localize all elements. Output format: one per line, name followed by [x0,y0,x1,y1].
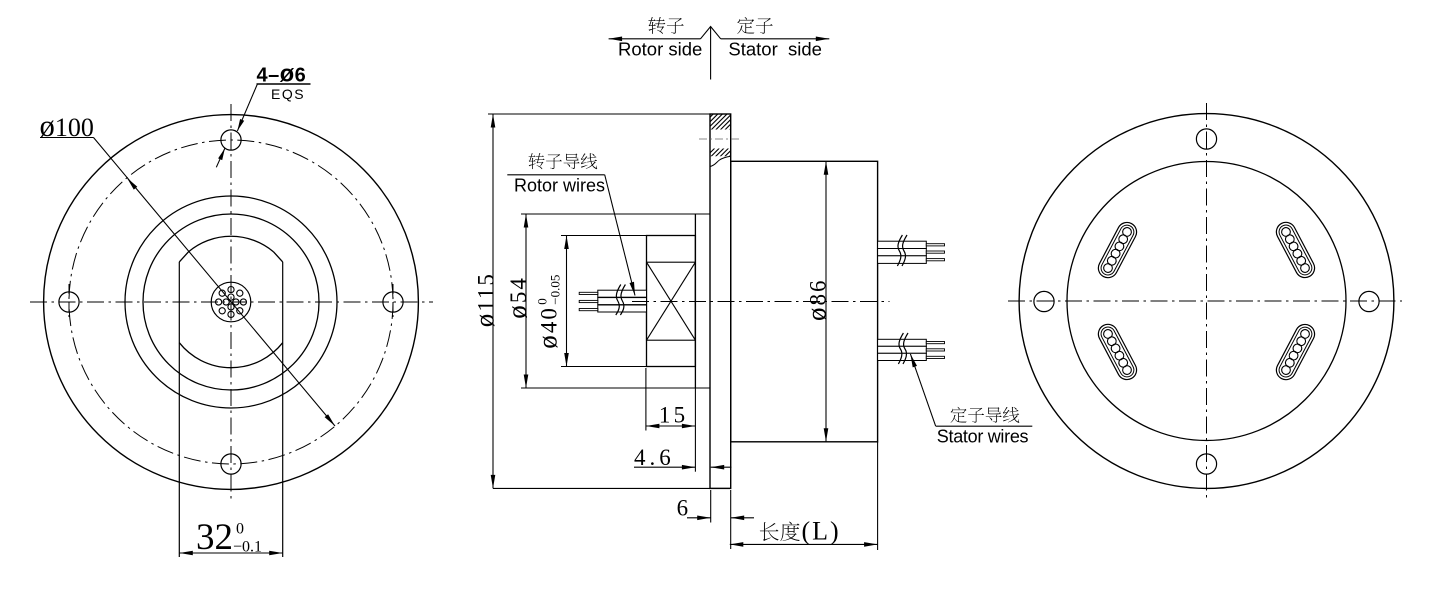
rotor/stator divider peak [701,27,721,39]
right view mounting hole right [1359,291,1379,311]
flange hatch band top [696,113,765,131]
right view mounting hole bottom [1196,454,1216,474]
connector NE [1273,219,1318,281]
dimension 4.6 line left [634,466,695,468]
label 转子 [648,17,665,34]
dimension ∅86 arrow top [824,161,829,175]
dimension ∅115 text [470,272,500,327]
left view hole left vertical tick [68,284,70,320]
left view flange outer circle ∅115 [44,115,419,490]
dimension 4.6 line right [711,466,732,468]
left view slot chamfer right [273,252,282,262]
dimension ∅54 text [502,276,532,319]
svg-text:ø54: ø54 [502,276,532,319]
svg-text:ø115: ø115 [470,272,500,327]
dimension 4-∅6 lower tail [216,148,225,167]
dimension 6 ext left [710,490,712,523]
dimension ∅40 ext bottom [561,366,647,368]
left view wire circles (12) [240,299,246,305]
right view mounting hole left [1034,291,1054,311]
dimension 长度(L) arrow left [730,542,744,547]
dimension 15 arrow right [682,424,696,429]
stator wires leader [910,354,935,426]
dimension ∅40 arrow top [564,236,569,250]
right view body circle ∅86 [1067,162,1346,441]
svg-text:−0.05: −0.05 [548,275,563,305]
left view vertical centerline [230,104,232,500]
rotor X-box diagonal 1 [647,262,696,340]
right view mounting hole top [1196,129,1216,149]
stator wire pins lower [926,342,944,344]
left view mounting hole right [383,292,403,312]
dimension 6 ext right [730,490,732,549]
svg-text:ø86: ø86 [802,278,832,321]
middle view horizontal centerline [632,301,890,303]
rotor wires leader arrow [630,282,636,296]
rotor X-box diagonal 2 [647,262,696,340]
left view boss arc bottom ∅40 [179,343,282,368]
rotor disc left edge ∅54 [694,214,696,388]
dimension ∅40 line [566,236,568,367]
dimension 6 arrow left [697,516,711,521]
svg-text:0: 0 [236,521,244,538]
right view horizontal centerline [1008,300,1402,302]
label 转子导线 [529,153,545,169]
svg-text:ø40: ø40 [533,306,563,349]
dimension ∅115 ext bottom [493,487,731,489]
svg-text:Rotor wires: Rotor wires [514,176,605,196]
dimension 长度(L) line [730,543,878,545]
svg-text:4.6: 4.6 [634,445,675,470]
left view mounting hole top [221,130,241,150]
dimension 4-∅6 underline [257,83,311,85]
rotor/stator divider left line [609,38,701,40]
rotor/stator divider vertical line [710,27,712,80]
stator cable break marks upper [897,235,902,266]
dimension ∅54 arrow top [524,214,529,228]
svg-text:Rotor side: Rotor side [618,39,702,60]
stator cable break marks lower [898,333,903,364]
rotor wires leader [605,175,635,296]
dimension ∅86 line [825,161,827,442]
svg-text:15: 15 [659,402,688,427]
connector NW [1095,219,1140,281]
flange partial-section break line [710,156,731,166]
dimension 长度(L) ext right [877,442,879,550]
right view vertical centerline [1206,103,1208,500]
left view boss arc top ∅40 [189,236,274,251]
left view wire-bundle boundary circle [211,282,251,322]
rotor cable bands [598,290,647,297]
connector SE [1273,321,1318,383]
dimension ∅100 diagonal line [94,138,336,427]
dimension 6 line left [687,517,711,519]
dimension ∅115 arrow bottom [491,475,496,489]
rotor/stator divider right line [721,38,830,40]
rotor disc top edge + ∅54 ext [521,213,710,215]
left view mounting hole left [59,292,79,312]
connector SW [1095,321,1140,383]
stator side arrow [816,37,830,42]
dimension 15 arrow left [646,424,660,429]
dimension ∅100 arrow NW [127,178,137,190]
dimension ∅40 arrow bottom [564,353,569,367]
dimension 15 line [646,425,696,427]
svg-text:Stator side: Stator side [728,39,822,60]
dimension 15 ext left [645,368,647,431]
dimension ∅115 ext top [488,113,710,115]
dimension 32 arrow right [269,551,283,556]
dimension 4-∅6 leader [237,84,257,131]
dimension 长度 text [760,522,779,541]
dimension ∅115 arrow top [491,114,496,128]
rotor X-box rect [647,262,696,340]
stator cable bands upper [878,241,927,248]
dimension ∅86 arrow bottom [824,428,829,442]
rotor disc bottom edge + ∅54 ext [521,387,710,389]
left view bolt circle ∅100 (dash-dot) [69,140,393,464]
svg-text:32: 32 [196,517,233,558]
dimension 32 line [179,552,282,554]
left view rotor disc circle ∅54 [143,214,319,390]
label 定子导线 underline [936,425,1033,427]
right view flange outer circle [1019,114,1394,489]
dimension 长度(L) arrow right [864,542,878,547]
dimension 4-∅6 arrow lower [218,148,225,160]
rotor cable break marks [616,285,621,316]
stator wires leader arrow [910,354,917,368]
left view hole right vertical tick [392,284,394,320]
dimension 4.6 ext [694,388,696,472]
stator cable bands lower [878,339,927,346]
left view slot edge left [178,262,180,557]
rotor boss rect ∅40 [647,236,696,367]
dimension 4-∅6 arrow upper [237,119,244,131]
label 定子 [737,17,754,34]
svg-text:Stator wires: Stator wires [937,427,1029,447]
dimension ∅100 arrow SE [325,414,335,426]
svg-text:EQS: EQS [271,86,305,102]
dimension ∅54 line [525,214,527,388]
svg-text:(L): (L) [802,517,841,546]
rotor side arrow [609,37,623,42]
stator body rect [731,161,878,442]
dimension 6 arrow right [731,516,745,521]
svg-text:−0.1: −0.1 [233,539,262,556]
dimension 32 arrow left [179,551,193,556]
dimension ∅40 text with tolerance [533,275,563,349]
dimension ∅100 leader underline [40,137,94,139]
left view slot chamfer left [179,252,188,262]
dimension 4.6 arrow left [682,465,696,470]
dimension ∅54 arrow bottom [524,375,529,389]
dimension ∅40 ext top [561,235,647,237]
left view mounting hole bottom [221,454,241,474]
dimension 6 line right [731,517,754,519]
flange hatch band lower [696,140,765,158]
label 转子导线 underline [507,174,604,176]
label 定子导线 [950,407,966,423]
left view horizontal centerline [30,301,433,303]
flange section rect [710,114,731,488]
stator wire pins upper [926,244,944,246]
rotor wire pins [579,292,598,294]
dimension ∅86 text [802,278,832,321]
dimension ∅115 line [492,114,494,488]
dimension 4.6 arrow right [711,465,725,470]
left view slot edge right [282,262,284,557]
flange bolt hole centerline [699,138,742,140]
svg-text:6: 6 [677,495,689,520]
left view circle ∅66 [125,196,337,408]
